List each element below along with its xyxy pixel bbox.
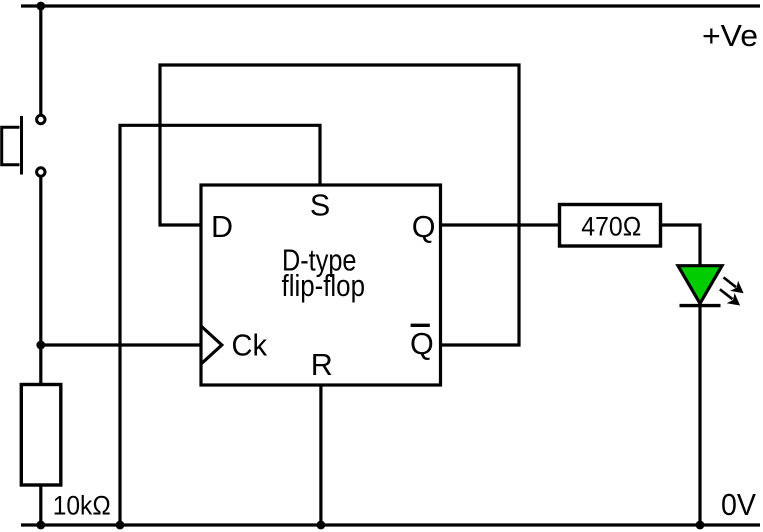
wire from switch to resistor — [39, 176, 42, 385]
clock edge triangle — [201, 326, 222, 364]
wire S pin to ground (via left loop) — [120, 125, 320, 525]
svg-text:Q: Q — [410, 327, 434, 361]
wire resistor to bottom rail — [39, 485, 42, 525]
svg-text:10kΩ: 10kΩ — [53, 491, 111, 521]
svg-text:Ck: Ck — [232, 329, 268, 363]
junction clock node — [36, 341, 45, 350]
junction R-ground — [317, 521, 326, 530]
LED D1 triangle — [678, 266, 722, 304]
LED light arrow 1 — [724, 277, 744, 293]
wire R pin to ground — [319, 385, 322, 525]
junction S-loop to ground rail — [116, 521, 125, 530]
svg-text:470Ω: 470Ω — [581, 212, 641, 242]
pin Qbar overbar — [411, 324, 430, 327]
wire top +Ve rail — [21, 4, 760, 7]
LED light arrow 2 — [720, 289, 740, 305]
push switch SW1 — [2, 115, 45, 176]
wire from top rail to switch — [39, 6, 42, 115]
svg-text:S: S — [310, 189, 330, 223]
junction resistor-ground — [36, 521, 45, 530]
svg-text:flip-flop: flip-flop — [282, 269, 366, 303]
svg-text:Q: Q — [412, 210, 436, 244]
junction LED-ground — [696, 521, 705, 530]
wire bottom 0V rail — [21, 523, 760, 526]
wire resistor 470 to LED — [661, 225, 701, 266]
wire Q output to resistor 470 — [441, 223, 560, 226]
resistor R2 470 body — [560, 205, 661, 247]
junction on top rail — [36, 2, 45, 11]
svg-text:+Ve: +Ve — [702, 19, 758, 53]
resistor R1 10k body — [21, 385, 61, 486]
svg-text:D: D — [211, 210, 233, 244]
LED cathode bar — [680, 304, 721, 307]
wire Qbar feedback to D input — [160, 65, 519, 345]
svg-text:R: R — [311, 348, 333, 382]
wire clock node to Ck pin — [41, 343, 201, 346]
wire LED to bottom rail — [698, 303, 701, 525]
op IC U1 D-type flip-flop body — [201, 185, 441, 385]
svg-text:0V: 0V — [721, 488, 757, 522]
